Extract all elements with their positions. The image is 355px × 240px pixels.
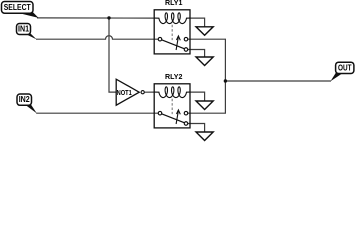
svg-text:NOT1: NOT1	[117, 88, 132, 97]
svg-text:IN1: IN1	[18, 25, 29, 34]
svg-text:SELECT: SELECT	[4, 3, 31, 12]
svg-text:OUT: OUT	[338, 64, 352, 73]
svg-text:RLY1: RLY1	[165, 0, 183, 7]
svg-text:IN2: IN2	[19, 95, 30, 104]
svg-text:RLY2: RLY2	[165, 72, 183, 81]
